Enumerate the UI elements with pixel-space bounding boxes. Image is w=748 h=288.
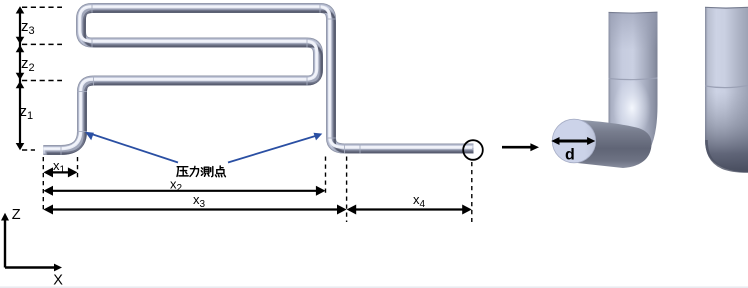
svg-text:x3: x3 — [193, 192, 206, 210]
glyph 压 — [177, 167, 188, 177]
3D elbow: vertical pipe with elbow silhouette — [598, 12, 658, 165]
dimension x3 — [46, 208, 344, 210]
coordinate axes — [5, 217, 56, 268]
glyph 测 — [201, 167, 213, 177]
wire: serpentine pipe shadow mid — [45, 10, 475, 152]
wire: serpentine pipe highlight — [42, 7, 472, 149]
3D elbow: circular face — [552, 119, 595, 163]
d dimension arrow — [551, 137, 595, 145]
blue arrow left — [85, 132, 178, 163]
dimension x4 — [349, 208, 469, 210]
wire: serpentine pipe light layer — [43, 8, 473, 150]
glyph 点 — [215, 166, 225, 177]
wire: serpentine pipe shadow deep — [47, 11, 477, 153]
dimension x2 — [46, 190, 323, 192]
svg-text:z2: z2 — [21, 55, 35, 74]
wire: serpentine pipe bright core — [42, 7, 472, 149]
blue arrow right — [228, 133, 322, 163]
dimension x1 — [46, 171, 75, 173]
svg-text:z3: z3 — [21, 18, 35, 37]
vertical dashed extension lines — [43, 157, 472, 223]
wire: serpentine pipe outline — [43, 8, 473, 150]
label 压力测点 (drawn as vector strokes) — [177, 166, 225, 177]
circle marker at pipe outlet — [463, 140, 483, 160]
z dimension line — [19, 9, 21, 148]
black arrow to detail view — [502, 143, 539, 151]
svg-text:d: d — [565, 147, 575, 164]
svg-text:Z: Z — [12, 207, 21, 223]
svg-text:z1: z1 — [20, 103, 34, 122]
glyph 力 — [190, 166, 199, 176]
dashed extension lines (z levels) — [22, 7, 62, 150]
3D elbow: horizontal cylinder — [575, 120, 652, 169]
bottom page strip — [0, 286, 748, 288]
wire: serpentine pipe shadow edge — [47, 12, 477, 154]
3D pipe far right — [705, 7, 748, 172]
svg-text:x4: x4 — [413, 192, 426, 210]
wire: serpentine pipe mid layer — [43, 8, 473, 150]
arrowheads z — [16, 6, 25, 150]
svg-text:X: X — [53, 273, 63, 288]
pipe segment seams — [61, 3, 360, 155]
